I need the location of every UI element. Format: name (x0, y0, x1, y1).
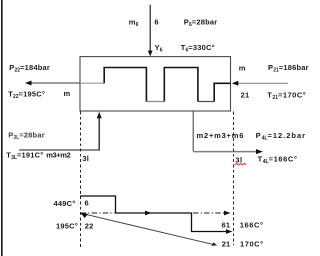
svg-text:P4L=12.2bar: P4L=12.2bar (256, 131, 307, 142)
svg-text:m: m (239, 64, 246, 73)
svg-text:P22=184bar: P22=184bar (9, 63, 50, 74)
stream 22 outlet arrow left (30, 82, 80, 84)
svg-text:m2+m3+m6: m2+m3+m6 (197, 131, 245, 140)
svg-text:T6=330C°: T6=330C° (181, 43, 215, 54)
inline arrow on profile (145, 211, 152, 216)
svg-text:T22=195C°: T22=195C° (8, 89, 45, 100)
svg-text:m6: m6 (129, 17, 139, 28)
svg-text:T3L=191C°: T3L=191C° (6, 151, 43, 162)
svg-text:T4L=166C°: T4L=166C° (258, 154, 298, 165)
serpentine tube gray bottom segment 1 (146, 101, 164, 103)
svg-text:T21=170C°: T21=170C° (267, 91, 306, 102)
svg-text:P6=28bar: P6=28bar (184, 17, 218, 28)
svg-text:21: 21 (222, 240, 231, 249)
red squiggle under right node 31 (235, 163, 247, 165)
stream 6 inlet arrow top (149, 5, 151, 52)
stream 31 inlet bottom left, horizontal then up into box (19, 149, 100, 151)
svg-text:166C°: 166C° (240, 220, 264, 229)
stream 21 inlet line right with arrow pointing left (237, 82, 288, 84)
dash-dot centerline (81, 212, 115, 214)
svg-text:6: 6 (85, 198, 89, 207)
hot stream temperature profile stepped line (80, 196, 228, 232)
right dashed vertical line (233, 112, 235, 246)
page left border (1, 0, 3, 256)
svg-text:22: 22 (85, 221, 94, 230)
stream 41 outlet bottom right, down then right with arrow (192, 111, 194, 152)
diagonal left arrowhead pointing up-left (81, 213, 89, 218)
svg-text:3l: 3l (82, 154, 89, 163)
svg-text:m3+m2: m3+m2 (46, 150, 70, 159)
svg-text:21: 21 (241, 91, 250, 100)
svg-text:195C°: 195C° (56, 221, 78, 230)
serpentine tube black path (104, 68, 230, 102)
left dashed vertical line (80, 112, 82, 248)
profile end arrow at right dashed line (226, 229, 233, 234)
serpentine tube dark bottom segment 2 (198, 101, 214, 103)
serpentine tube gray left exit segment (80, 82, 104, 84)
svg-text:P21=186bar: P21=186bar (268, 63, 309, 74)
svg-text:m: m (64, 89, 71, 98)
heat exchanger box (80, 57, 231, 111)
svg-text:449C°: 449C° (54, 199, 76, 208)
dash-dot end arrow (224, 211, 231, 216)
svg-text:170C°: 170C° (240, 240, 264, 249)
cold stream diagonal line (83, 214, 214, 245)
svg-text:61: 61 (222, 220, 231, 229)
diagonal right arrowhead (211, 242, 217, 246)
svg-text:P3L=28bar: P3L=28bar (8, 130, 45, 141)
svg-text:Y6: Y6 (155, 43, 163, 54)
svg-text:6: 6 (154, 17, 158, 26)
